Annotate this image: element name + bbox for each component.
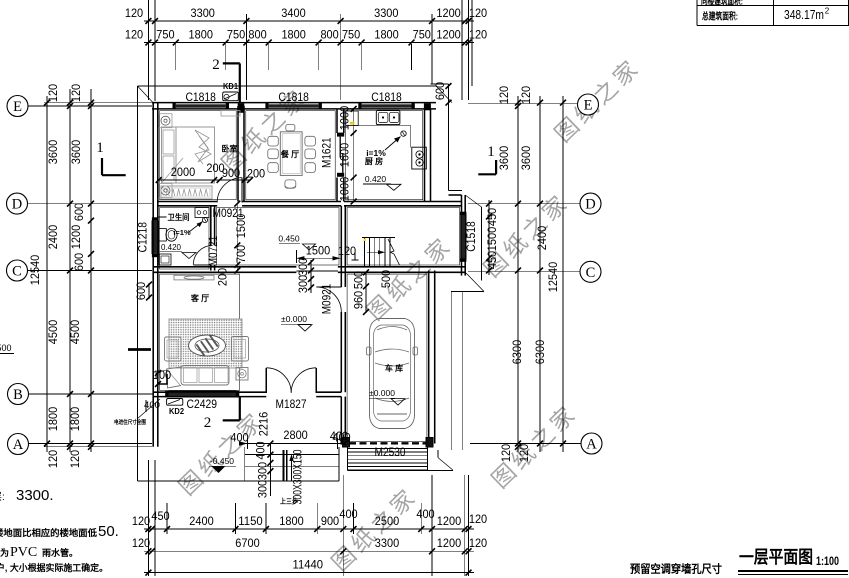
svg-text:1: 1 xyxy=(487,144,495,160)
svg-text:12540: 12540 xyxy=(28,254,42,285)
svg-text:1200: 1200 xyxy=(437,536,462,550)
top dimension row 2 (750/1800 splits) xyxy=(125,28,488,46)
area table top right xyxy=(697,0,849,26)
svg-text:E: E xyxy=(584,98,593,114)
wall bedroom/dining (vertical) xyxy=(238,106,244,202)
svg-text:1800: 1800 xyxy=(189,28,214,42)
living step dims 300 300 xyxy=(296,258,314,294)
svg-text:D: D xyxy=(585,197,595,213)
svg-text:500: 500 xyxy=(379,270,393,289)
svg-text:120: 120 xyxy=(338,244,357,258)
hall level 0.450 + dim 1500 120 xyxy=(278,234,358,264)
window C1818 #2 xyxy=(265,90,322,109)
svg-text:2400: 2400 xyxy=(535,226,549,251)
svg-text:雨水管。: 雨水管。 xyxy=(42,547,78,558)
svg-text:A: A xyxy=(13,437,24,453)
kitchen wall dims 1000 1600 1000 xyxy=(338,106,357,205)
svg-text:500: 500 xyxy=(352,271,366,290)
room inner outline bedroom xyxy=(160,111,237,200)
svg-text:E: E xyxy=(13,99,22,115)
room label 卧室 xyxy=(222,144,238,154)
top dimension row 1 (120 3300 3400 3300 1200 120) xyxy=(125,6,488,24)
svg-text:960: 960 xyxy=(352,291,366,310)
svg-text:3300: 3300 xyxy=(191,6,216,20)
door M0921 living/garage xyxy=(316,283,341,314)
roof overhang outline xyxy=(138,84,485,481)
kitchen sink xyxy=(346,110,411,147)
svg-text:1500: 1500 xyxy=(485,227,499,252)
door M1621 dining/kitchen sliding xyxy=(320,133,345,177)
svg-text:120: 120 xyxy=(519,86,533,105)
svg-text:预留空调穿墙孔尺寸: 预留空调穿墙孔尺寸 xyxy=(630,562,722,576)
svg-text:C1818: C1818 xyxy=(278,90,309,104)
svg-text:i=1%: i=1% xyxy=(173,228,191,237)
axis circle E right xyxy=(578,94,599,115)
svg-text:厨 房: 厨 房 xyxy=(365,156,383,166)
svg-text:0.420: 0.420 xyxy=(365,174,387,184)
wall bay east with C1518 (vertical) xyxy=(449,195,466,276)
AC hole KD2 xyxy=(167,399,185,417)
svg-text:层:: 层: xyxy=(0,491,5,503)
bottom extension lines xyxy=(148,460,468,576)
svg-text:一层平面图: 一层平面图 xyxy=(739,547,813,567)
svg-text:M0721: M0721 xyxy=(206,235,220,266)
svg-text:0.420: 0.420 xyxy=(161,243,182,252)
left dimension chains (12540 / 3600 2400 4500 1800 / splits) xyxy=(28,84,152,469)
svg-text:120: 120 xyxy=(469,6,488,20)
bathroom level 0.420 xyxy=(160,243,197,259)
bedside lamps xyxy=(159,114,172,198)
svg-text:120: 120 xyxy=(125,28,144,42)
svg-text:120: 120 xyxy=(132,536,151,550)
svg-text:200: 200 xyxy=(247,167,266,181)
svg-text:120: 120 xyxy=(46,84,60,103)
svg-text:1600: 1600 xyxy=(338,143,352,168)
svg-text:PVC: PVC xyxy=(10,545,37,560)
room inner outline dining xyxy=(246,111,335,200)
armchair right xyxy=(232,337,249,362)
svg-text:3600: 3600 xyxy=(69,140,83,165)
room label 车库 xyxy=(385,363,403,373)
window C1518 (right bay wall) xyxy=(460,212,478,262)
door M1827 entrance double xyxy=(266,368,316,411)
svg-text:KD1: KD1 xyxy=(223,81,238,91)
watermark 图纸之家 #2 xyxy=(550,53,646,147)
room inner outline garage xyxy=(347,274,427,441)
svg-text:A: A xyxy=(586,437,597,453)
svg-text:400: 400 xyxy=(339,507,358,521)
rug xyxy=(169,319,242,368)
watermark 图纸之家 #7 xyxy=(487,399,583,493)
section mark 2 bottom xyxy=(204,397,240,431)
svg-text:3600: 3600 xyxy=(519,146,533,171)
stairs xyxy=(362,238,400,267)
right dimension chains (450 1500 450 / 2400 6300 / 12540) xyxy=(485,86,566,463)
section mark 2 top xyxy=(212,57,240,103)
door M0921 bedroom (arc in D wall) xyxy=(213,178,244,220)
wardrobe xyxy=(161,186,212,199)
svg-text:12540: 12540 xyxy=(546,261,560,292)
bedroom bed xyxy=(162,127,215,183)
svg-text:C1818: C1818 xyxy=(371,90,402,104)
svg-text:6300: 6300 xyxy=(510,340,524,365)
room inner outline entry hall xyxy=(216,208,339,265)
svg-text:348.17m: 348.17m xyxy=(784,7,824,22)
TV cabinet xyxy=(174,275,214,280)
dim 600 kitchen corner xyxy=(433,82,451,106)
svg-text:2500: 2500 xyxy=(375,514,400,528)
svg-text:200: 200 xyxy=(216,268,230,287)
window C1818 #3 xyxy=(358,90,415,109)
svg-text:1800: 1800 xyxy=(281,28,306,42)
axis circle B left xyxy=(8,384,29,405)
exterior wall left xyxy=(153,103,158,447)
exterior wall top (axis E) xyxy=(152,103,436,109)
svg-text:300: 300 xyxy=(256,480,270,499)
note line 2 xyxy=(0,523,119,540)
room label 客厅 xyxy=(190,293,209,303)
watermark 图纸之家 #4 xyxy=(362,231,458,325)
section mark 1 left xyxy=(96,140,125,175)
svg-text:2400: 2400 xyxy=(46,225,60,250)
svg-text:800: 800 xyxy=(248,28,267,42)
svg-text:同楼建筑面积:: 同楼建筑面积: xyxy=(701,0,743,8)
wall kitchen east (vertical) xyxy=(425,109,431,202)
watermark 图纸之家 #1 xyxy=(217,83,313,177)
svg-text:1000: 1000 xyxy=(338,106,352,131)
svg-text:900: 900 xyxy=(321,514,340,528)
svg-text:400: 400 xyxy=(332,431,351,445)
axis circle A left xyxy=(8,434,29,455)
room inner outline living xyxy=(160,274,240,390)
svg-text:3300: 3300 xyxy=(374,6,399,20)
svg-text:2400: 2400 xyxy=(189,514,214,528)
axis circle E left xyxy=(7,96,28,117)
svg-text:300: 300 xyxy=(296,258,310,277)
svg-text:1: 1 xyxy=(96,140,104,156)
svg-text:C: C xyxy=(12,264,22,280)
bottom dimension row 2 (6700 3300 1200) xyxy=(132,536,488,554)
garage ramp xyxy=(348,447,428,471)
svg-text:450: 450 xyxy=(485,208,499,227)
svg-text:M1621: M1621 xyxy=(320,137,334,168)
bottom dimension row 1 (450 2400 1150 1800 900 400 2500 400 1200) xyxy=(132,507,488,532)
room inner outline bathroom xyxy=(160,208,209,269)
svg-text:120: 120 xyxy=(497,86,511,105)
garage door jambs xyxy=(343,438,434,448)
wall B axis (living south, C2429 + M1827 gaps) xyxy=(153,392,341,396)
svg-text:车 库: 车 库 xyxy=(385,363,403,373)
wall living/garage (vertical, M0921 gap) xyxy=(341,206,345,444)
AC hole KD1 xyxy=(223,81,239,101)
toilet xyxy=(158,228,177,241)
axis circle D right xyxy=(580,193,601,214)
coffee table xyxy=(189,335,226,356)
wall junction stubs top xyxy=(238,103,431,113)
wall C axis (hall/living + garage top) xyxy=(153,267,465,273)
bathroom sink xyxy=(159,254,171,265)
bathroom side dims 1500 700 200 xyxy=(216,201,249,287)
svg-text:餐 厅: 餐 厅 xyxy=(280,149,299,159)
svg-text:800: 800 xyxy=(320,28,339,42)
svg-text:卧室: 卧室 xyxy=(222,144,238,154)
wall bathroom east (vertical, door M0721 gap) xyxy=(211,206,215,271)
entrance dim 2800 400 400 xyxy=(230,412,351,449)
svg-text:6700: 6700 xyxy=(235,536,260,550)
kitchen stove xyxy=(412,147,427,169)
svg-text:6300: 6300 xyxy=(533,340,547,365)
kitchen drain + slope xyxy=(366,131,406,158)
sofa xyxy=(167,366,230,389)
svg-text:2000: 2000 xyxy=(171,165,196,179)
svg-text:120: 120 xyxy=(469,536,488,550)
axis lines xyxy=(28,104,581,444)
note line 3 (PVC) xyxy=(0,545,78,560)
svg-text:3600: 3600 xyxy=(46,140,60,165)
svg-text:1800: 1800 xyxy=(279,514,304,528)
svg-text:1:100: 1:100 xyxy=(816,554,839,568)
caption 预留空调穿墙孔尺寸 xyxy=(630,562,722,576)
svg-text:120: 120 xyxy=(125,6,144,20)
svg-text:总建筑面积:: 总建筑面积: xyxy=(702,11,738,23)
entrance steps xyxy=(245,447,339,506)
svg-text:2: 2 xyxy=(212,57,220,73)
level bar 500 left edge xyxy=(0,343,151,354)
svg-text:3600: 3600 xyxy=(497,146,511,171)
garage side dims 500 960 xyxy=(352,269,394,315)
level mark ±0.000 garage xyxy=(369,388,405,405)
room label 厨房 xyxy=(365,156,383,166)
svg-text:750: 750 xyxy=(156,28,175,42)
svg-text:2: 2 xyxy=(825,7,830,16)
svg-text:1200: 1200 xyxy=(437,514,462,528)
window C1818 #1 xyxy=(173,90,230,109)
dim 400 near KD2 xyxy=(144,400,160,412)
section mark 1 right xyxy=(478,144,496,174)
svg-text:300: 300 xyxy=(296,275,310,294)
svg-text:±0.000: ±0.000 xyxy=(369,388,395,398)
level mark -0.450 porch xyxy=(209,456,236,473)
svg-text:600: 600 xyxy=(134,282,148,301)
svg-text:1200: 1200 xyxy=(69,225,83,250)
bottom dimension row 3 (11440) xyxy=(144,558,474,576)
svg-text:C1518: C1518 xyxy=(464,221,478,252)
window C1218 (left wall) xyxy=(136,217,159,257)
svg-text:1800: 1800 xyxy=(46,407,60,432)
svg-text:C1818: C1818 xyxy=(185,90,216,104)
svg-text:客 厅: 客 厅 xyxy=(190,293,209,303)
svg-text:1500: 1500 xyxy=(306,244,331,258)
svg-text:120: 120 xyxy=(517,444,531,463)
armchair left xyxy=(165,337,182,361)
axis circle C left xyxy=(7,260,28,281)
leader note 电进住尺寸全围 xyxy=(114,399,160,426)
room inner outline kitchen xyxy=(346,111,423,200)
svg-text:2: 2 xyxy=(204,415,212,431)
svg-text:11440: 11440 xyxy=(293,558,324,572)
dim 600 left lower xyxy=(134,282,152,301)
svg-text:750: 750 xyxy=(413,28,432,42)
svg-text:4500: 4500 xyxy=(46,320,60,345)
svg-text:楼地面比相应的楼地面低: 楼地面比相应的楼地面低 xyxy=(0,527,97,538)
watermark 图纸之家 #5 xyxy=(174,406,270,500)
note line 1 (3300) xyxy=(0,487,54,504)
svg-text:±0.000: ±0.000 xyxy=(281,314,307,324)
svg-text:300: 300 xyxy=(256,462,270,481)
svg-text:120: 120 xyxy=(499,444,513,463)
svg-text:3400: 3400 xyxy=(281,6,306,20)
svg-text:1150: 1150 xyxy=(238,514,263,528)
svg-text:500: 500 xyxy=(0,343,12,353)
svg-text:户, 大小根据实际施工确定。: 户, 大小根据实际施工确定。 xyxy=(0,562,108,573)
window C2429 (living south wall) xyxy=(165,391,239,411)
svg-text:M0921: M0921 xyxy=(320,283,334,314)
svg-text:900: 900 xyxy=(222,166,241,180)
svg-text:4500: 4500 xyxy=(68,320,82,345)
svg-text:120: 120 xyxy=(132,514,151,528)
car xyxy=(367,319,418,429)
svg-text:1500: 1500 xyxy=(234,214,248,239)
svg-text:B: B xyxy=(13,387,23,403)
svg-text:3300.: 3300. xyxy=(16,487,54,504)
kitchen level 0.420 xyxy=(363,174,401,190)
svg-text:400: 400 xyxy=(230,431,249,445)
svg-text:电进住尺寸全围: 电进住尺寸全围 xyxy=(114,418,146,426)
svg-text:750: 750 xyxy=(227,28,246,42)
svg-text:1000: 1000 xyxy=(338,177,352,202)
svg-text:120: 120 xyxy=(469,512,488,526)
bedroom shelf xyxy=(221,111,240,117)
svg-text:0.450: 0.450 xyxy=(278,234,300,244)
note line 4 xyxy=(0,562,108,573)
room label 餐厅 xyxy=(280,149,299,159)
svg-text:700: 700 xyxy=(234,245,248,264)
door M2530 garage (dashed) xyxy=(349,443,426,459)
svg-text:120: 120 xyxy=(69,84,83,103)
svg-text:2216: 2216 xyxy=(257,412,271,437)
svg-text:KD2: KD2 xyxy=(169,406,184,416)
watermark 图纸之家 #6 xyxy=(327,482,423,576)
level mark ±0.000 living xyxy=(281,314,312,331)
dim 400 garage door xyxy=(330,429,349,443)
interior wall D axis (bedroom/bath/dining) xyxy=(158,202,462,206)
dining table xyxy=(268,125,316,189)
title 一层平面图 1:100 xyxy=(738,547,848,575)
axis circle C right xyxy=(580,261,601,282)
axis circle D left xyxy=(7,193,28,214)
watermark 图纸之家 #3 xyxy=(479,188,575,282)
svg-text:3300: 3300 xyxy=(375,536,400,550)
svg-text:卫生间: 卫生间 xyxy=(168,212,190,222)
bathroom washer box xyxy=(195,208,209,218)
svg-text:为: 为 xyxy=(0,547,9,558)
svg-text:600: 600 xyxy=(72,253,86,272)
svg-text:-0.450: -0.450 xyxy=(210,456,234,466)
axis circle A right xyxy=(581,433,602,454)
svg-text:120: 120 xyxy=(46,450,60,469)
porch side dims 400 300 300 xyxy=(254,441,274,499)
svg-text:M1827: M1827 xyxy=(276,397,307,411)
bathroom label 卫生间 xyxy=(159,212,190,222)
svg-text:1200: 1200 xyxy=(436,28,461,42)
svg-text:2800: 2800 xyxy=(283,428,308,442)
room inner outline hall xyxy=(347,208,460,265)
svg-text:300X300X150: 300X300X150 xyxy=(291,449,305,504)
svg-text:D: D xyxy=(12,197,22,213)
svg-text:120: 120 xyxy=(469,28,488,42)
wall garage east (vertical) xyxy=(429,271,435,444)
svg-text:C2429: C2429 xyxy=(187,397,218,411)
svg-text:1800: 1800 xyxy=(374,28,399,42)
svg-text:120: 120 xyxy=(68,450,82,469)
svg-text:450: 450 xyxy=(485,251,499,270)
svg-text:C1218: C1218 xyxy=(136,222,150,253)
wall dining/kitchen (vertical, M1621 gap) xyxy=(337,109,344,202)
door M0721 bathroom xyxy=(193,235,220,266)
side table lamp xyxy=(236,368,248,381)
svg-text:1800: 1800 xyxy=(68,407,82,432)
svg-text:50.: 50. xyxy=(98,523,119,540)
svg-text:600: 600 xyxy=(433,82,447,101)
svg-text:C: C xyxy=(586,265,596,281)
svg-text:750: 750 xyxy=(342,28,361,42)
top extension lines xyxy=(148,0,472,101)
bathroom slope i=1% xyxy=(173,217,207,237)
dim 100 left wall xyxy=(153,368,172,387)
svg-text:1200: 1200 xyxy=(436,6,461,20)
svg-text:600: 600 xyxy=(72,203,86,222)
bedroom interior dims 2000 200 900 200 xyxy=(156,161,266,183)
